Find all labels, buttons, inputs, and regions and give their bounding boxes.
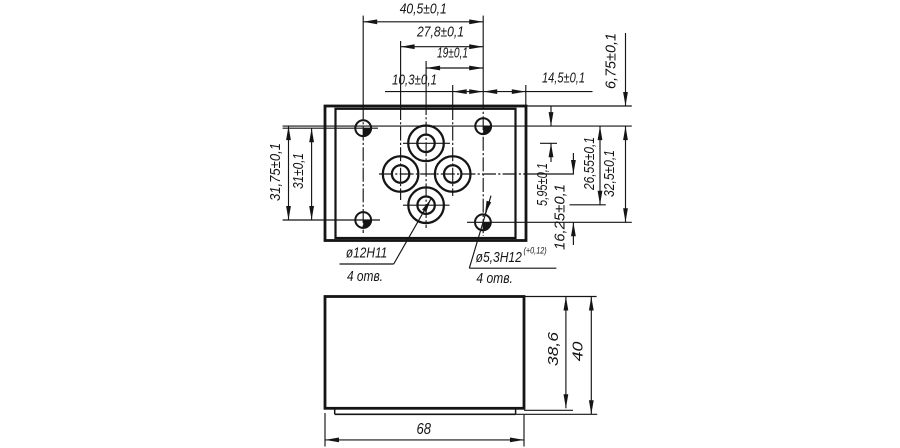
dimension 68 [325,413,524,447]
dimension 40,5±0,1 [363,1,483,25]
plate body front view [325,297,524,409]
port T bottom bore circle [417,197,434,214]
extension line bottom port row right [570,204,606,206]
dimension 38,6 [545,297,568,409]
plate outer contour (top view) [325,106,526,241]
svg-text:31,75±0,1: 31,75±0,1 [267,143,284,201]
extension line front top edge right [524,296,597,298]
extension line top-left hole row [283,127,378,129]
dimension 26,55±0,1 [581,126,602,205]
mounting hole top-left [355,120,371,136]
centerline horizontal middle ports row [377,173,526,175]
svg-text:(+0,12): (+0,12) [524,245,547,255]
svg-text:38,6: 38,6 [545,331,562,366]
extension line bottom-left hole row [283,219,380,221]
svg-text:4 отв.: 4 отв. [347,268,383,285]
svg-text:31±0,1: 31±0,1 [290,153,307,189]
mounting hole top-right [475,118,491,134]
dimension 10,3±0,1 and 14,5±0,1 line [385,89,593,94]
centerline vertical left mounting holes [362,16,364,107]
svg-text:ø12H11: ø12H11 [346,244,387,261]
dimension 31±0,1 [290,128,314,220]
svg-text:14,5±0,1: 14,5±0,1 [542,69,585,86]
extension line top-right hole row [283,125,632,127]
centerline vertical port A column [400,41,402,107]
centerline horizontal top port [403,142,450,144]
port B right bore circle [444,165,461,182]
svg-text:4 отв.: 4 отв. [476,270,513,287]
port A left bore circle [392,165,409,182]
centerline horizontal bottom port [403,204,450,206]
dimension 40 [570,297,594,415]
callout ø5,3H12(+0,12) 4 holes [469,196,556,288]
svg-text:19±0,1: 19±0,1 [437,44,468,61]
centerline vertical port P/T column [425,61,427,107]
mounting hole bottom-left [355,212,371,228]
dimension 31,75±0,1 [267,126,291,220]
extension line bottom-right hole row [467,221,632,223]
plate inner contour (seal groove) [336,109,516,238]
dimension 6,75±0,1 [603,33,628,106]
svg-text:40,5±0,1: 40,5±0,1 [400,1,447,18]
port B right counterbore circle [435,156,471,192]
port T bottom counterbore circle [408,187,444,223]
svg-text:ø5,3H12: ø5,3H12 [476,249,523,266]
dimension 16,25±0,1 [552,153,576,250]
extension line plate top edge right [526,105,632,107]
dimension 5,95±0,1 [534,106,553,206]
svg-text:5,95±0,1: 5,95±0,1 [534,163,551,206]
dimension 19±0,1 [426,44,483,70]
extension line lip bottom right [516,413,598,415]
svg-text:6,75±0,1: 6,75±0,1 [603,33,620,89]
extension line plate right edge up [525,85,527,106]
port P top counterbore circle [408,126,444,162]
extension line top port row right [540,142,557,144]
callout ø12H11 4 holes [340,199,431,285]
port A left counterbore circle [383,156,419,192]
mounting hole bottom-right [475,214,491,230]
svg-text:32,5±0,1: 32,5±0,1 [601,150,618,197]
port P top bore circle [417,135,434,152]
centerline vertical port B column [452,85,454,107]
svg-text:27,8±0,1: 27,8±0,1 [416,23,464,40]
dimension 32,5±0,1 [601,126,628,222]
extension line front bottom edge right [524,409,573,411]
svg-text:10,3±0,1: 10,3±0,1 [392,71,437,88]
centerline vertical right mounting holes [482,16,484,107]
svg-text:40: 40 [570,341,587,362]
svg-text:68: 68 [416,421,431,438]
svg-text:16,25±0,1: 16,25±0,1 [552,184,569,250]
svg-text:26,55±0,1: 26,55±0,1 [581,137,598,191]
plate bottom lip front view [335,409,516,414]
dimension 27,8±0,1 [401,23,484,49]
